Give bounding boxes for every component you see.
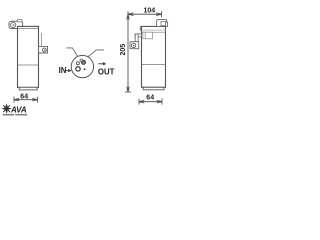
right view: top outlet fitting [157,20,168,27]
arrow IN [66,70,71,72]
dimension 205 [125,14,131,92]
arrow OUT [98,63,105,65]
AVA logo subtext [3,114,14,116]
top view: left antenna line [66,48,78,57]
left view: bottom cap [19,87,37,90]
svg-text:AVA: AVA [10,105,27,114]
left view: inlet fitting port [9,20,23,29]
top view: ring port lower-left [76,67,80,71]
dimension 104 [128,11,162,17]
dimension 64 (right view) [139,99,162,105]
top view: small dot port [84,68,86,70]
svg-text:OUT: OUT [98,67,115,76]
svg-text:205: 205 [120,44,127,56]
dimension 64 (left view) [14,97,37,103]
svg-text:64: 64 [146,95,154,102]
top view: port circle [71,55,93,77]
top view: right antenna line [87,50,104,57]
top view: small port upper-left [76,62,79,65]
svg-text:104: 104 [144,8,156,15]
left view: mounting strap line [40,33,42,46]
left view: drier cylinder body [18,26,39,87]
right view: cylinder body [140,26,165,87]
right view: left port tube [135,34,142,42]
left view: mounting bracket [39,46,48,53]
top view: double port middle [80,59,86,65]
AVA logo star [1,103,11,114]
svg-text:IN: IN [59,66,67,75]
right view: internal boss [143,32,153,39]
right view: mounting foot [130,42,139,49]
svg-text:64: 64 [20,94,28,101]
right view: bottom cap [143,87,164,90]
